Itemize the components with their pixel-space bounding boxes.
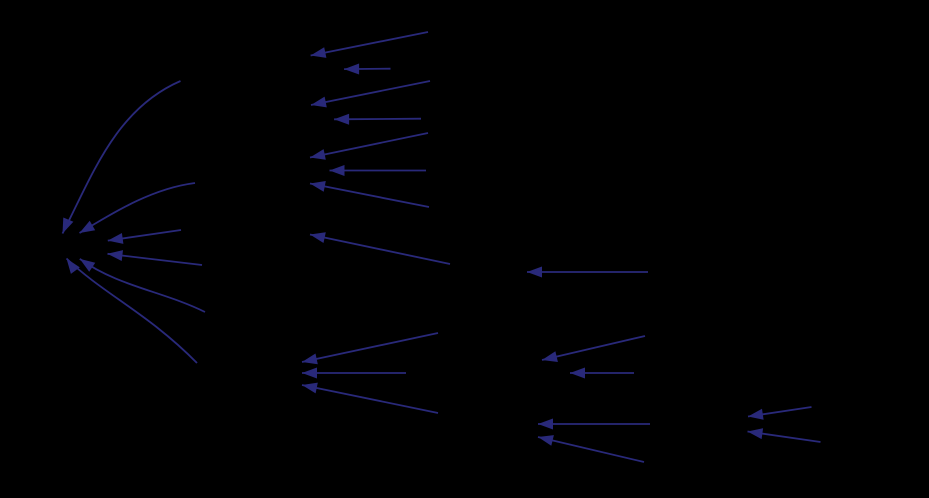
edge B8 [310,232,450,264]
edge D1 [527,267,648,278]
edge A2 into left node [80,183,196,233]
edge A5 into left node [67,259,198,364]
edge G1 [748,407,812,420]
edge B4 [334,114,421,125]
edge A6 into left node [80,259,205,312]
edge F1 [538,419,650,430]
edge B2 [344,64,390,75]
edge F2 [538,435,644,462]
edge B7 [310,181,429,207]
edge A4 into left node [108,250,203,265]
edge A3 into left node [108,230,181,244]
edge B5 [310,133,428,160]
edge C2 [302,368,406,379]
edge G2 [748,428,821,442]
edge E1 [542,336,645,362]
edge B3 [311,81,430,107]
edge B1 [311,32,428,58]
edge C3 [302,383,438,413]
edge A1 arc into left node [63,81,181,234]
edge B6 [330,165,427,176]
edge E2 [570,368,634,379]
edge C1 [302,333,438,364]
